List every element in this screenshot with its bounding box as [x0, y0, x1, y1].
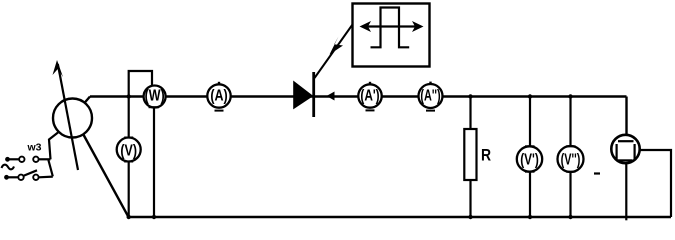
svg-text:(V): (V)	[120, 142, 137, 160]
thyristor VS cathode bar	[312, 72, 315, 117]
svg-text:(V'): (V')	[520, 150, 539, 168]
oscilloscope screen bottom	[618, 159, 633, 161]
resistor R body	[464, 129, 476, 180]
voltmeter V'' circle	[558, 146, 584, 172]
voltmeter V'' terminal bar top	[566, 145, 576, 147]
oscilloscope circle	[611, 135, 639, 163]
wire bus to voltmeter V'	[529, 97, 531, 147]
resistor R label	[481, 146, 491, 165]
voltmeter V circle	[117, 138, 141, 162]
switch terminal circle top-right	[33, 157, 38, 162]
wire bus to voltmeter V	[128, 97, 130, 138]
wire V to bottom bus	[128, 162, 130, 218]
wire V' to bottom bus	[529, 172, 531, 217]
svg-text:w3: w3	[27, 142, 42, 154]
switch terminal circle bottom-left	[18, 175, 23, 180]
junction dot W loop on bus	[127, 94, 131, 98]
junction dot V'' branch	[568, 94, 572, 98]
ammeter A' underline mark	[366, 109, 375, 111]
voltmeter V label	[120, 142, 137, 160]
variac T1 circle	[53, 99, 92, 138]
wire oscilloscope bottom to bus	[625, 163, 627, 220]
junction dot bottom-left	[127, 215, 131, 219]
wire W bottom to bottom bus	[153, 107, 155, 217]
gate arrowhead	[330, 37, 344, 55]
ammeter A underline mark	[215, 110, 224, 112]
top supply wire	[8, 158, 19, 160]
pulse generator box	[353, 4, 430, 67]
junction dot R branch	[468, 94, 472, 98]
bottom supply wire	[7, 176, 19, 178]
oscilloscope screen left	[615, 144, 617, 160]
pulse waveform	[371, 8, 410, 48]
voltmeter V terminal bar bottom	[124, 161, 133, 163]
ammeter A'' circle	[419, 84, 443, 108]
AC tilde symbol	[2, 165, 15, 170]
voltmeter V'' label	[561, 150, 581, 168]
wire variac to top bus	[83, 97, 90, 105]
wattmeter W underline mark	[149, 106, 160, 108]
junction dot V' branch	[528, 94, 532, 98]
wire oscilloscope right return	[640, 150, 671, 217]
voltmeter V' circle	[517, 146, 542, 171]
svg-text:(A'): (A')	[360, 86, 379, 104]
top bus wire	[90, 95, 627, 97]
wire bus to voltmeter V''	[569, 97, 571, 147]
oscilloscope screen trace	[618, 140, 634, 142]
junction dot R bottom	[468, 215, 472, 219]
junction dot W wire on bottom bus	[152, 215, 156, 219]
ammeter A' circle	[358, 84, 381, 107]
wattmeter W voltage loop	[129, 71, 152, 97]
current direction arrow on wire	[327, 92, 335, 101]
ammeter A' top tick	[369, 82, 371, 85]
ammeter A label	[210, 87, 227, 105]
svg-text:(A''): (A'')	[420, 86, 440, 104]
svg-text:(W): (W)	[145, 87, 165, 105]
voltmeter V' terminal bar top	[525, 145, 535, 147]
wire switch top to variac	[39, 158, 51, 160]
voltmeter V' terminal bar bottom	[525, 171, 535, 173]
ammeter A'' label	[420, 86, 440, 104]
svg-text:R: R	[481, 146, 491, 165]
junction dot V' bottom	[528, 215, 532, 219]
minus label	[594, 172, 600, 174]
wire switch bottom out	[39, 176, 53, 179]
junction dot V'' bottom	[568, 215, 572, 219]
voltmeter V' label	[520, 150, 539, 168]
voltmeter V terminal bar top	[124, 137, 133, 139]
bottom supply terminal dot	[4, 175, 9, 180]
ammeter A top tick	[218, 82, 220, 85]
wire variac to bottom bus	[82, 132, 129, 217]
wire bus corner down to oscilloscope	[625, 97, 627, 136]
svg-text:(A): (A)	[210, 87, 227, 105]
wire V'' to bottom bus	[569, 172, 571, 217]
wire L1 up to variac winding	[49, 133, 58, 160]
wattmeter W label	[145, 87, 165, 105]
switch terminal circle top-left	[19, 157, 24, 162]
switch terminal circle bottom-right	[33, 175, 38, 180]
pulse width double arrow	[364, 25, 419, 27]
wattmeter W circle	[144, 86, 166, 108]
wire R to bottom bus	[469, 180, 471, 217]
voltmeter V'' terminal bar bottom	[566, 171, 576, 173]
ammeter A circle	[207, 84, 230, 107]
wire L2 to bottom switch wire	[48, 160, 52, 176]
ammeter A'' top tick	[429, 82, 431, 85]
ammeter A'' underline mark	[426, 110, 435, 112]
variac wiper arrow	[58, 64, 78, 170]
switch blade bottom	[23, 170, 37, 176]
thyristor VS anode triangle	[294, 82, 313, 109]
wire bus to resistor R	[469, 97, 471, 130]
oscilloscope screen right	[633, 144, 635, 160]
ammeter A' label	[360, 86, 379, 104]
top supply terminal dot	[5, 157, 10, 162]
svg-text:(V''): (V'')	[561, 150, 581, 168]
bottom bus wire	[128, 216, 671, 218]
thyristor gate wire to pulse generator	[315, 25, 353, 79]
